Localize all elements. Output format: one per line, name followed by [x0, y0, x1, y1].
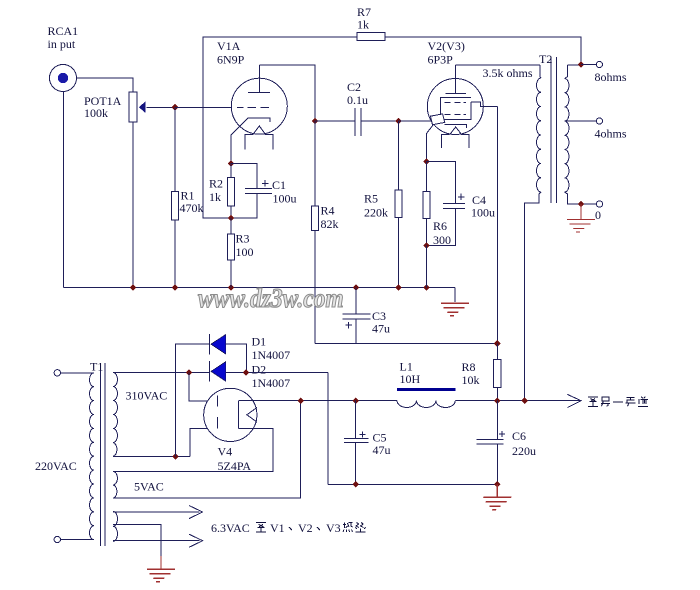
svg-text:8ohms: 8ohms: [595, 70, 627, 84]
resistor R4: [312, 121, 319, 344]
capacitor C4: [427, 162, 466, 246]
svg-text:R5: R5: [364, 192, 378, 206]
svg-text:R4: R4: [321, 204, 335, 218]
svg-text:C2: C2: [347, 80, 361, 94]
resistor R1: [172, 107, 179, 287]
svg-text:0.1u: 0.1u: [347, 93, 368, 107]
svg-text:220k: 220k: [364, 206, 388, 220]
node T2 primary feed at rail: [521, 397, 528, 404]
wire V2 plate to T2 primary: [456, 64, 540, 66]
ground upper rail: [438, 288, 469, 316]
wire RCA ground lead: [63, 92, 65, 288]
resistor R2: [228, 164, 235, 219]
svg-text:1N4007: 1N4007: [252, 376, 291, 390]
ground T2 secondary: [564, 204, 595, 232]
wire T2 secondary bottom to 0 terminal: [565, 192, 597, 204]
capacitor C6: [476, 401, 505, 485]
diode D2 1N4007: [209, 361, 225, 382]
svg-text:6P3P: 6P3P: [428, 53, 454, 67]
wire 4ohms tap: [566, 120, 596, 122]
svg-text:82k: 82k: [321, 217, 339, 231]
svg-text:470k: 470k: [180, 201, 204, 215]
capacitor C5: [344, 401, 368, 485]
svg-text:www.dz3w.com: www.dz3w.com: [198, 284, 344, 314]
wire HV bottom lead: [113, 455, 190, 457]
wire T2 primary bottom to B+ rail: [525, 192, 541, 401]
label to other channel (Chinese): [588, 397, 648, 407]
node wiper junction: [172, 104, 179, 111]
wire PSU ground rail: [328, 483, 498, 485]
svg-text:10H: 10H: [400, 372, 421, 386]
node V1 cathode junction: [228, 160, 235, 167]
svg-text:V2: V2: [298, 521, 313, 535]
node R6 C4 bottom junction: [423, 242, 430, 249]
svg-text:V2(V3): V2(V3): [428, 39, 465, 53]
wire V4 cathode to B+ rail: [239, 400, 398, 402]
wire B+ decoupled node: [315, 343, 497, 345]
label 6.3VAC heater note: [211, 521, 366, 535]
svg-text:3.5k ohms: 3.5k ohms: [483, 66, 533, 80]
resistor R5: [395, 121, 402, 288]
wire HV return riser: [327, 373, 329, 485]
svg-text:47u: 47u: [373, 443, 391, 457]
node C6 bottom junction: [494, 481, 501, 488]
svg-text:R6: R6: [433, 219, 447, 233]
wire D1 cathode link: [176, 344, 210, 456]
svg-text:100u: 100u: [273, 192, 297, 206]
wire grid of V1: [175, 106, 237, 108]
svg-text:47u: 47u: [372, 322, 390, 336]
wire 6.3VAC center tap: [113, 525, 161, 557]
node C5 bottom at ground rail: [352, 481, 359, 488]
capacitor C3: [343, 288, 371, 344]
svg-text:R3: R3: [236, 232, 250, 246]
terminal T1 primary bottom: [54, 536, 60, 542]
wire grid of V2: [399, 120, 432, 122]
node HV top junction: [186, 369, 193, 376]
node R8 top junction: [494, 340, 501, 347]
wire RCA to POT1A top: [77, 78, 134, 92]
node HV bottom junction: [172, 453, 179, 460]
tube V2 beam tetrode: [427, 65, 498, 162]
svg-text:5Z4PA: 5Z4PA: [218, 459, 252, 473]
svg-text:T2: T2: [539, 52, 552, 66]
terminal 0: [596, 201, 602, 207]
wire HV top to D2: [113, 372, 209, 374]
node R3 at rail: [228, 284, 235, 291]
tube V1A triode: [231, 65, 287, 164]
svg-text:V1A: V1A: [217, 39, 241, 53]
svg-text:6N9P: 6N9P: [217, 53, 245, 67]
resistor R3: [228, 218, 235, 288]
node R5 at rail: [395, 284, 402, 291]
ground heater center tap: [144, 556, 175, 582]
wire D2 cathode to V4 plate1: [189, 373, 218, 402]
node 8ohms tap junction: [578, 61, 585, 68]
diode D1 1N4007: [209, 334, 225, 355]
resistor R8: [494, 344, 502, 401]
wire V1 plate to C2 and R4: [259, 65, 315, 121]
wire 6.3VAC lead 2: [113, 540, 200, 542]
wire POT1A bottom lead: [132, 122, 134, 288]
node POT1A at rail: [130, 284, 137, 291]
transformer T1: [89, 363, 117, 546]
svg-text:RCA1: RCA1: [48, 24, 79, 38]
node V1 plate junction: [312, 118, 319, 125]
node 5VAC riser at B+ rail: [297, 397, 304, 404]
terminal T1 primary top: [54, 370, 60, 376]
svg-text:4ohms: 4ohms: [595, 127, 627, 141]
terminal 8ohms: [581, 61, 603, 67]
node R6 at rail: [423, 284, 430, 291]
wire V4 filament to 5VAC top: [113, 429, 273, 472]
svg-text:100u: 100u: [471, 206, 495, 220]
svg-text:10k: 10k: [462, 373, 480, 387]
node C5 top: [352, 397, 359, 404]
svg-text:V1: V1: [270, 521, 285, 535]
feedback wire top rail left segment: [203, 37, 357, 218]
svg-text:1N4007: 1N4007: [252, 348, 291, 362]
svg-text:V4: V4: [218, 445, 233, 459]
capacitor C2: [315, 108, 399, 136]
svg-text:5VAC: 5VAC: [134, 480, 164, 494]
svg-text:220VAC: 220VAC: [35, 459, 77, 473]
svg-text:220u: 220u: [512, 444, 536, 458]
resistor R7: [357, 33, 385, 41]
node D1 D2 anode junction: [243, 369, 250, 376]
transformer T2: [536, 57, 581, 203]
wire T1 primary top lead: [61, 372, 95, 374]
svg-text:C6: C6: [512, 429, 526, 443]
svg-text:R8: R8: [462, 360, 476, 374]
wire B+ rail to output arrow: [455, 400, 580, 402]
wire top rail right segment: [385, 37, 581, 65]
connector RCA1: [50, 65, 77, 92]
svg-text:300: 300: [433, 233, 451, 247]
wire 5VAC bottom riser: [113, 401, 301, 499]
node R1 at rail: [172, 284, 179, 291]
terminal 4ohms: [596, 118, 602, 124]
svg-text:D2: D2: [252, 363, 267, 377]
arrow heater lead 1: [189, 506, 203, 519]
wire R6 to ground rail: [426, 246, 428, 288]
wire D1 anode link: [226, 344, 247, 373]
wire 6.3VAC lead 1: [113, 511, 200, 513]
wire V4 plate2 link: [190, 428, 218, 456]
svg-text:V3: V3: [326, 521, 341, 535]
resistor R6: [423, 162, 430, 246]
capacitor C1: [231, 164, 272, 219]
svg-text:310VAC: 310VAC: [126, 389, 168, 403]
svg-text:T1: T1: [90, 360, 103, 374]
node C3 at rail: [353, 284, 360, 291]
svg-text:D1: D1: [252, 335, 267, 349]
wire POT1A wiper to node: [147, 106, 176, 108]
svg-text:R2: R2: [209, 177, 223, 191]
node R2 R3 feedback junction: [228, 215, 235, 222]
svg-text:1k: 1k: [357, 18, 369, 32]
arrow heater lead 2: [189, 534, 203, 547]
wire V2 screen to B+ node: [496, 107, 498, 344]
tube V4 rectifier: [204, 388, 257, 441]
node R8 bottom at rail: [494, 397, 501, 404]
wire T1 primary bottom lead: [61, 539, 95, 541]
ground PSU filter: [480, 484, 511, 509]
wire D2 anode to HV return: [226, 372, 328, 374]
arrow B+ to other channel: [567, 394, 581, 407]
svg-text:0: 0: [595, 208, 601, 222]
svg-text:6.3VAC: 6.3VAC: [211, 521, 250, 535]
svg-text:100k: 100k: [84, 106, 108, 120]
node V2 grid junction: [395, 118, 402, 125]
wire ground rail upper: [64, 287, 456, 289]
svg-text:C1: C1: [272, 178, 286, 192]
node 0 terminal junction: [578, 201, 585, 208]
svg-text:1k: 1k: [209, 190, 221, 204]
svg-text:in put: in put: [48, 37, 76, 51]
svg-text:100: 100: [236, 245, 254, 259]
potentiometer POT1A: [129, 92, 146, 122]
node V2 cathode junction: [423, 158, 430, 165]
inductor L1: [397, 390, 455, 408]
